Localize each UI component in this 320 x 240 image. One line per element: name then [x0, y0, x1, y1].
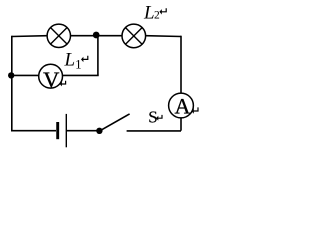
ammeter A [169, 93, 194, 119]
svg-text:L: L [143, 3, 155, 24]
wire bottom-left (corner to battery) [11, 130, 56, 132]
lamp L2 symbol [122, 24, 146, 48]
node dot on left wire [8, 72, 14, 78]
wire switch to bottom-right corner [127, 130, 181, 132]
label L1 [64, 50, 82, 72]
return mark after A [193, 107, 198, 111]
lamp L1 symbol [47, 24, 70, 47]
wire right (top-right corner down to bottom-right corner) [180, 36, 182, 131]
wire left (top-left corner down to bottom-left corner) [11, 36, 13, 131]
switch S (pivot dot and open arm) [96, 114, 129, 134]
wire voltmeter branch horizontal [12, 74, 99, 76]
node junction dot on top wire [93, 32, 100, 39]
wire top (left corner to right corner) [12, 35, 181, 38]
svg-text:1: 1 [75, 57, 82, 72]
return mark after V [61, 81, 65, 84]
return mark after L2 [161, 8, 166, 12]
battery [58, 114, 67, 147]
svg-text:S: S [148, 107, 157, 126]
voltmeter V [39, 64, 63, 92]
wire battery to switch [67, 130, 97, 132]
return mark after S [158, 115, 162, 118]
svg-text:V: V [43, 67, 59, 92]
svg-text:2: 2 [154, 10, 160, 22]
label L2 [143, 3, 160, 24]
svg-text:A: A [175, 94, 191, 119]
return mark after L1 [83, 56, 88, 60]
svg-text:L: L [64, 50, 76, 71]
wire voltmeter branch vertical (junction down) [97, 36, 99, 76]
